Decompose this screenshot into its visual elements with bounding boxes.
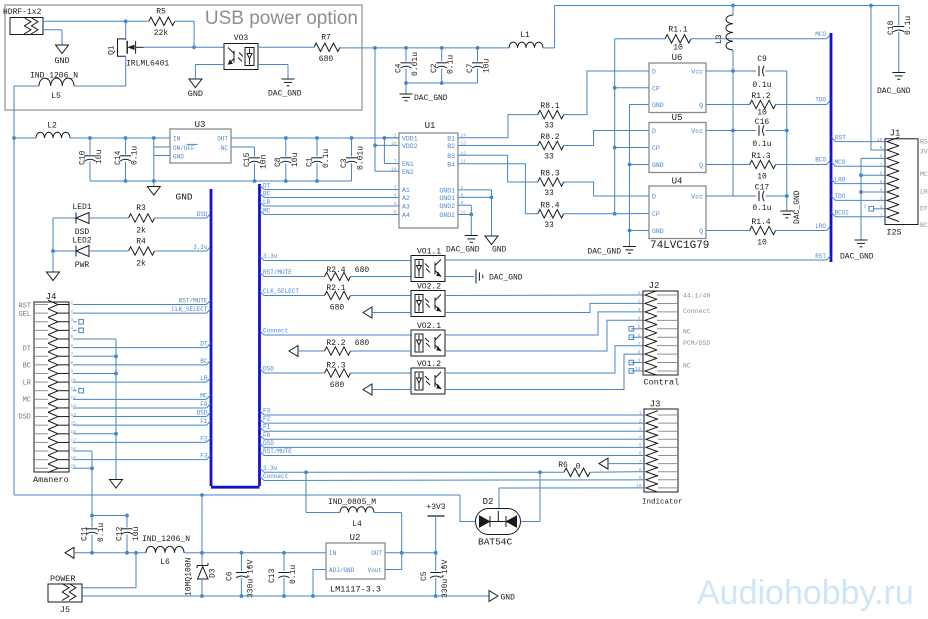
- svg-text:Indicator: Indicator: [642, 499, 683, 507]
- wire U3 enable loop: [153, 138, 155, 181]
- capacitor C6 electrolytic: [240, 553, 242, 571]
- svg-text:33: 33: [544, 122, 554, 131]
- wire U2 ADJ to gnd rail: [313, 570, 326, 597]
- svg-text:0.1u: 0.1u: [752, 204, 771, 213]
- svg-text:0: 0: [576, 463, 581, 472]
- svg-text:B4: B4: [447, 161, 455, 168]
- wire 3.3v to VO1.1: [260, 256, 264, 260]
- bus right rail: [258, 184, 261, 486]
- wire R1.1 to L3 to MCO bus: [691, 38, 827, 40]
- svg-text:B1: B1: [447, 135, 455, 142]
- svg-text:33: 33: [544, 153, 554, 162]
- wire R8.1 to U6: [564, 71, 649, 115]
- gnd rail under U3: [90, 180, 352, 182]
- svg-text:A3: A3: [402, 204, 410, 211]
- svg-text:10u: 10u: [291, 152, 300, 167]
- flip-flop U5: [649, 123, 706, 173]
- wire U1 GND1 pins: [458, 189, 492, 191]
- svg-text:10u: 10u: [132, 526, 141, 541]
- wire B4 to R8.4: [458, 164, 538, 214]
- svg-text:GND: GND: [176, 192, 193, 203]
- svg-text:LR: LR: [23, 380, 32, 388]
- svg-text:Contral: Contral: [644, 378, 680, 388]
- svg-text:Q: Q: [699, 162, 703, 169]
- svg-text:R2.3: R2.3: [326, 362, 345, 371]
- wire VO1.1 collector to RST bus: [445, 259, 827, 261]
- wire U1 GND2 pins: [458, 204, 471, 206]
- wire BCO2 to J1: [832, 213, 836, 217]
- svg-text:9: 9: [880, 145, 883, 151]
- wire R1.2 to TDO bus: [775, 104, 826, 106]
- DAC_GND: [405, 83, 407, 94]
- svg-text:LM1117-3.3: LM1117-3.3: [330, 585, 381, 595]
- wire J4 pin8 BC: [73, 364, 207, 366]
- svg-text:R1.3: R1.3: [751, 152, 770, 161]
- svg-text:C3: C3: [340, 158, 349, 168]
- svg-text:Vcc: Vcc: [691, 69, 703, 76]
- svg-text:Vcc: Vcc: [691, 194, 703, 201]
- svg-text:DSD: DSD: [263, 366, 274, 373]
- arrow net stub power in: [65, 547, 74, 558]
- no-connect J1 pin2: [869, 207, 874, 212]
- wire F3 to J3 pin1: [260, 411, 264, 415]
- svg-text:DSD: DSD: [263, 440, 274, 447]
- svg-text:F0: F0: [200, 401, 208, 408]
- wire bottom gnd rail: [82, 595, 489, 597]
- wire J4 pin10 LR: [73, 381, 207, 383]
- svg-text:4: 4: [880, 187, 883, 193]
- svg-text:22k: 22k: [154, 29, 169, 38]
- svg-text:F2: F2: [263, 416, 271, 423]
- svg-text:CP: CP: [652, 145, 660, 152]
- svg-text:0.1u: 0.1u: [97, 523, 106, 542]
- wire J4 pin2 CLK_SELECT: [73, 312, 207, 314]
- svg-text:Q: Q: [699, 228, 703, 235]
- DAC_GND: [892, 72, 905, 74]
- DAC_GND: [623, 246, 636, 248]
- connector J2 Contral: [643, 291, 678, 375]
- svg-text:MC: MC: [23, 397, 31, 405]
- svg-text:J5: J5: [60, 605, 70, 615]
- regulator U2 LM1117-3.3: [326, 543, 385, 579]
- wire DSD to J3 pin5: [260, 443, 264, 447]
- wire gnd rail corner to D2: [460, 495, 476, 522]
- svg-text:GND: GND: [54, 56, 69, 66]
- wire RST/MUTE to J3 pin6: [260, 451, 264, 455]
- svg-text:RST: RST: [18, 303, 31, 311]
- inductor L3: [732, 6, 734, 16]
- svg-text:SEL: SEL: [18, 311, 31, 319]
- svg-text:8: 8: [880, 154, 883, 160]
- svg-text:ON/OFF: ON/OFF: [173, 145, 195, 152]
- svg-text:VO2.1: VO2.1: [417, 322, 441, 331]
- svg-text:RST/MUTE: RST/MUTE: [263, 448, 292, 455]
- svg-text:U3: U3: [195, 120, 206, 130]
- svg-text:TDO: TDO: [835, 193, 846, 200]
- svg-text:I2S: I2S: [886, 228, 901, 238]
- svg-text:R5: R5: [156, 8, 166, 17]
- svg-text:MC: MC: [200, 392, 208, 399]
- wire EN2: [375, 170, 399, 172]
- svg-text:2: 2: [880, 204, 883, 210]
- capacitor C2: [441, 48, 443, 62]
- svg-text:RST: RST: [815, 253, 826, 260]
- wire L6 to U2 IN: [184, 552, 326, 554]
- wire Connect to J3 pin9: [260, 476, 264, 480]
- svg-text:VO2.2: VO2.2: [417, 283, 441, 292]
- svg-text:DSD: DSD: [197, 211, 208, 218]
- svg-text:ADJ/GND: ADJ/GND: [329, 567, 355, 574]
- svg-text:GND: GND: [652, 162, 664, 169]
- svg-text:GND1: GND1: [439, 195, 455, 202]
- svg-text:Q: Q: [699, 102, 703, 109]
- bus bottom: [211, 486, 260, 489]
- optocoupler VO3: [224, 44, 258, 70]
- svg-text:680: 680: [355, 266, 370, 275]
- ground: [110, 480, 123, 489]
- svg-text:DT: DT: [200, 341, 208, 348]
- svg-text:L1: L1: [520, 31, 530, 40]
- svg-text:C18: C18: [887, 20, 896, 35]
- svg-text:OUT: OUT: [217, 135, 228, 142]
- svg-text:F2: F2: [200, 435, 208, 442]
- svg-text:680: 680: [330, 381, 345, 390]
- no-connect J4 pin4: [73, 329, 77, 331]
- svg-text:GND2: GND2: [439, 212, 455, 219]
- svg-text:TDO: TDO: [815, 97, 826, 104]
- wire D2 right to 3.3v: [521, 521, 541, 523]
- svg-text:Vout: Vout: [368, 567, 382, 574]
- svg-text:10u: 10u: [95, 149, 104, 164]
- wire R1.3 to BCO bus: [775, 164, 826, 166]
- svg-text:DAC_GND: DAC_GND: [414, 94, 448, 103]
- svg-text:10: 10: [673, 44, 683, 53]
- svg-text:R1.1: R1.1: [668, 26, 687, 35]
- svg-text:R2.4: R2.4: [326, 266, 345, 275]
- svg-text:A1: A1: [402, 187, 410, 194]
- ground: [485, 236, 498, 245]
- capacitor C14: [125, 138, 127, 155]
- wire R1.4 to LRO bus: [775, 230, 826, 232]
- svg-text:10: 10: [757, 239, 767, 248]
- capacitor C4: [405, 48, 407, 62]
- svg-text:10: 10: [757, 173, 767, 182]
- resistor R7: [314, 43, 340, 51]
- svg-text:L2: L2: [47, 122, 57, 131]
- svg-text:0.1u: 0.1u: [904, 16, 913, 35]
- capacitor C13: [283, 553, 285, 571]
- wire F0 to J3 pin4: [260, 435, 264, 439]
- no-connect J2 pin5: [629, 326, 634, 331]
- ground: [153, 181, 155, 187]
- svg-text:DAC_GND: DAC_GND: [840, 253, 874, 262]
- svg-text:F1: F1: [263, 424, 271, 431]
- capacitor C18: [898, 6, 900, 26]
- svg-text:R4: R4: [136, 238, 146, 247]
- svg-text:7: 7: [880, 162, 883, 168]
- wire U6 Vcc row / C9: [706, 70, 756, 72]
- svg-text:CP: CP: [652, 85, 660, 92]
- svg-text:MC: MC: [920, 171, 928, 178]
- svg-text:DAC_GND: DAC_GND: [489, 274, 523, 283]
- wire VO2.2 collector to J2 pin1: [445, 294, 643, 297]
- svg-text:C2: C2: [430, 63, 439, 73]
- capacitor C15: [254, 147, 256, 157]
- wire VO3 cathode to GND: [195, 64, 224, 66]
- svg-text:3.3v: 3.3v: [263, 465, 278, 472]
- svg-text:R7: R7: [321, 34, 331, 43]
- resistor R2.1: [325, 291, 351, 299]
- wire VO2.1 collector to J2 pin3: [445, 312, 643, 335]
- wire B3 to R8.3: [458, 155, 538, 182]
- svg-text:GND: GND: [173, 153, 184, 160]
- wire J4 pin17 F2: [73, 441, 207, 443]
- svg-text:A4: A4: [402, 212, 410, 219]
- svg-text:C15: C15: [243, 152, 252, 167]
- wire F2 to J3 pin2: [260, 419, 264, 423]
- svg-text:33: 33: [544, 189, 554, 198]
- svg-text:680: 680: [330, 304, 345, 313]
- capacitor C7: [477, 48, 479, 62]
- svg-text:GND: GND: [492, 246, 507, 255]
- svg-text:0.1u: 0.1u: [752, 140, 771, 149]
- svg-text:Vcc: Vcc: [691, 128, 703, 135]
- svg-text:Connect: Connect: [263, 328, 288, 335]
- wire VO1.2 emitter to J2 pin8: [445, 354, 643, 389]
- svg-text:DT: DT: [263, 182, 271, 189]
- wire R4 to bus: [155, 250, 207, 252]
- resistor R2.2 with arrow: [289, 346, 298, 357]
- svg-text:C17: C17: [755, 184, 770, 193]
- bus TDM/I2S vertical: [830, 33, 833, 262]
- wire MC to U1: [260, 210, 264, 214]
- svg-text:D: D: [652, 128, 656, 135]
- svg-text:IN: IN: [329, 550, 337, 557]
- capacitor C8: [285, 138, 287, 157]
- wire J4 pin14 DSD: [73, 416, 207, 418]
- svg-text:VO1.2: VO1.2: [417, 360, 441, 369]
- svg-text:RST: RST: [920, 139, 928, 146]
- wire L5 to Q1: [74, 85, 126, 87]
- svg-text:3: 3: [880, 196, 883, 202]
- svg-text:DAC_GND: DAC_GND: [793, 190, 802, 224]
- wire J4 pin1 RST/MUTE: [73, 304, 207, 306]
- svg-text:U1: U1: [425, 121, 436, 131]
- svg-text:HDRF-1x2: HDRF-1x2: [3, 8, 42, 17]
- wire R6 to J3 pin8: [590, 471, 644, 474]
- svg-text:C8: C8: [274, 157, 283, 167]
- transistor Q1 IRLML6401: [125, 21, 127, 40]
- resistor R1.4: [750, 226, 776, 234]
- svg-text:GND1: GND1: [439, 188, 455, 195]
- svg-text:BAT54C: BAT54C: [478, 537, 513, 548]
- svg-text:DAC_GND: DAC_GND: [877, 87, 911, 96]
- svg-text:IND_1206_N: IND_1206_N: [142, 535, 190, 544]
- wire LR to U1: [260, 202, 264, 206]
- DAC_GND: [780, 210, 793, 212]
- wire R7 node down to VDD2 EN2: [374, 48, 376, 171]
- svg-text:0.01u: 0.01u: [411, 52, 420, 76]
- svg-text:C7: C7: [466, 63, 475, 73]
- optocoupler VO2.1: [411, 330, 445, 356]
- svg-text:10: 10: [757, 109, 767, 118]
- resistor R8.2: [538, 141, 564, 149]
- svg-text:74LVC1G79: 74LVC1G79: [650, 240, 709, 252]
- svg-text:PWR: PWR: [75, 261, 90, 270]
- svg-text:L4: L4: [352, 520, 362, 529]
- resistor R4: [129, 247, 155, 255]
- svg-text:3.3v: 3.3v: [263, 253, 278, 260]
- svg-text:6: 6: [880, 170, 883, 176]
- svg-text:C5: C5: [420, 571, 429, 581]
- svg-text:IRLML6401: IRLML6401: [126, 60, 169, 69]
- svg-text:MCO: MCO: [815, 31, 826, 38]
- wire J4 pin15 F1: [73, 424, 207, 426]
- wire D2 common to J3 pin10: [498, 488, 500, 509]
- svg-text:680: 680: [355, 339, 370, 348]
- wire MCO to J1: [832, 162, 836, 166]
- svg-text:+3V3: +3V3: [426, 503, 445, 512]
- svg-text:8: 8: [638, 349, 641, 355]
- wire VDD1: [384, 137, 399, 139]
- svg-text:0.1u: 0.1u: [447, 55, 456, 74]
- wire CLK_SELECT to R2.1: [260, 291, 264, 295]
- wire HDRF pin1 to R5: [43, 20, 149, 22]
- svg-text:EN1: EN1: [402, 161, 414, 168]
- svg-text:0.1u: 0.1u: [752, 81, 771, 90]
- svg-text:LR: LR: [263, 199, 271, 206]
- USB power option box: [5, 5, 362, 110]
- wire U5 Q to R1.3: [706, 164, 750, 166]
- wire L2 to U3: [14, 137, 36, 139]
- svg-text:DT: DT: [23, 346, 31, 354]
- wire LRO to J1: [832, 179, 836, 183]
- wire J4 pin19 F3: [73, 459, 207, 461]
- svg-text:C6: C6: [226, 571, 235, 581]
- svg-text:R1.2: R1.2: [751, 92, 770, 101]
- no-connect J4 pin11: [73, 390, 77, 392]
- svg-text:3: 3: [638, 307, 641, 313]
- top rail wire: [555, 5, 899, 7]
- svg-text:Audiohobby.ru: Audiohobby.ru: [697, 574, 914, 612]
- arrow GND: [489, 591, 498, 602]
- wire R5 to node: [175, 20, 194, 22]
- svg-text:VO3: VO3: [234, 34, 249, 43]
- arrow net stub: [363, 307, 372, 318]
- DAC_GND: [475, 270, 477, 284]
- svg-text:R1.4: R1.4: [751, 218, 770, 227]
- capacitor C16: [758, 125, 760, 135]
- svg-text:10: 10: [877, 137, 883, 143]
- svg-text:0.01u: 0.01u: [357, 146, 366, 170]
- wire TDO to J1: [832, 196, 836, 200]
- svg-text:LRO: LRO: [815, 223, 826, 230]
- capacitor C3: [351, 138, 353, 157]
- svg-text:C12: C12: [116, 526, 125, 541]
- svg-text:330u*16V: 330u*16V: [247, 559, 256, 598]
- wire L1 to top rail: [543, 47, 555, 49]
- svg-text:F1: F1: [200, 418, 208, 425]
- wire VDD2: [375, 144, 399, 146]
- optocoupler VO2.2: [411, 291, 445, 317]
- svg-text:R8.1: R8.1: [540, 102, 559, 111]
- svg-text:Q1: Q1: [108, 45, 117, 55]
- DAC_GND: [855, 239, 868, 241]
- svg-text:NC: NC: [683, 363, 691, 370]
- svg-text:R8.2: R8.2: [540, 133, 559, 142]
- wire U3 OUT rail: [231, 137, 399, 139]
- arrow net stub J3 pin7: [599, 458, 608, 469]
- svg-text:F3: F3: [263, 408, 271, 415]
- svg-text:J1: J1: [890, 129, 901, 139]
- DAC_GND: [282, 78, 295, 80]
- wire J4 pin18 to power caps: [73, 450, 92, 452]
- svg-text:BCO: BCO: [815, 157, 826, 164]
- resistor R2.3: [325, 369, 351, 377]
- wire BC to U1: [260, 193, 264, 197]
- svg-text:IND_0805_M: IND_0805_M: [328, 498, 376, 507]
- wire J4 pin6 DT: [73, 347, 207, 349]
- svg-text:DT: DT: [920, 206, 928, 213]
- svg-text:BC: BC: [23, 363, 31, 371]
- svg-text:C9: C9: [757, 55, 767, 64]
- svg-text:D: D: [652, 69, 656, 76]
- svg-text:BCO2: BCO2: [835, 210, 850, 217]
- svg-text:680: 680: [319, 55, 334, 64]
- arrow net stub: [363, 384, 372, 395]
- svg-text:C4: C4: [395, 63, 404, 73]
- wire U6 Q to R1.2: [706, 104, 750, 106]
- svg-text:R2.1: R2.1: [326, 284, 345, 293]
- capacitor C1: [316, 138, 318, 157]
- svg-text:VDD1: VDD1: [402, 135, 418, 142]
- wire VO3 to R7: [258, 46, 314, 48]
- svg-text:L3: L3: [715, 34, 724, 44]
- wire VO1.1 emitter to DAC_GND: [445, 276, 474, 278]
- wire 3.3v rail: [260, 468, 264, 472]
- svg-text:0.1u: 0.1u: [322, 149, 331, 168]
- connector J3 Indicator: [644, 409, 678, 492]
- svg-text:CLK_SELECT: CLK_SELECT: [171, 306, 207, 313]
- svg-text:USB power option: USB power option: [205, 8, 358, 29]
- svg-text:BC: BC: [263, 190, 271, 197]
- svg-text:GND: GND: [188, 89, 203, 99]
- bus left rail: [210, 189, 213, 486]
- diode D3 10MQ100N: [201, 495, 203, 565]
- ground: [189, 79, 202, 88]
- wire CP clock line: [614, 39, 616, 214]
- svg-text:DAC_GND: DAC_GND: [587, 248, 621, 257]
- wire J1 DAC_GND pins: [860, 158, 862, 239]
- wire RST to J1: [832, 137, 836, 141]
- wire Vout loop: [385, 569, 402, 571]
- wire R8.4 to CP line: [564, 213, 615, 215]
- svg-text:LR: LR: [200, 375, 208, 382]
- svg-text:L5: L5: [51, 92, 61, 101]
- ground: [47, 272, 60, 281]
- resistor R1.1: [665, 35, 691, 43]
- svg-text:R2.2: R2.2: [326, 339, 345, 348]
- wire gnd rail from J4 region: [14, 494, 460, 496]
- wire U4 Vcc row / C17: [706, 195, 756, 197]
- svg-text:R8.4: R8.4: [540, 202, 559, 211]
- svg-text:MCO: MCO: [835, 159, 846, 166]
- svg-text:330u*16V: 330u*16V: [441, 559, 450, 598]
- svg-text:2k: 2k: [136, 260, 146, 269]
- DAC_GND: [465, 235, 478, 237]
- wire DT to U1: [260, 185, 264, 189]
- optocoupler VO1.2: [411, 368, 445, 394]
